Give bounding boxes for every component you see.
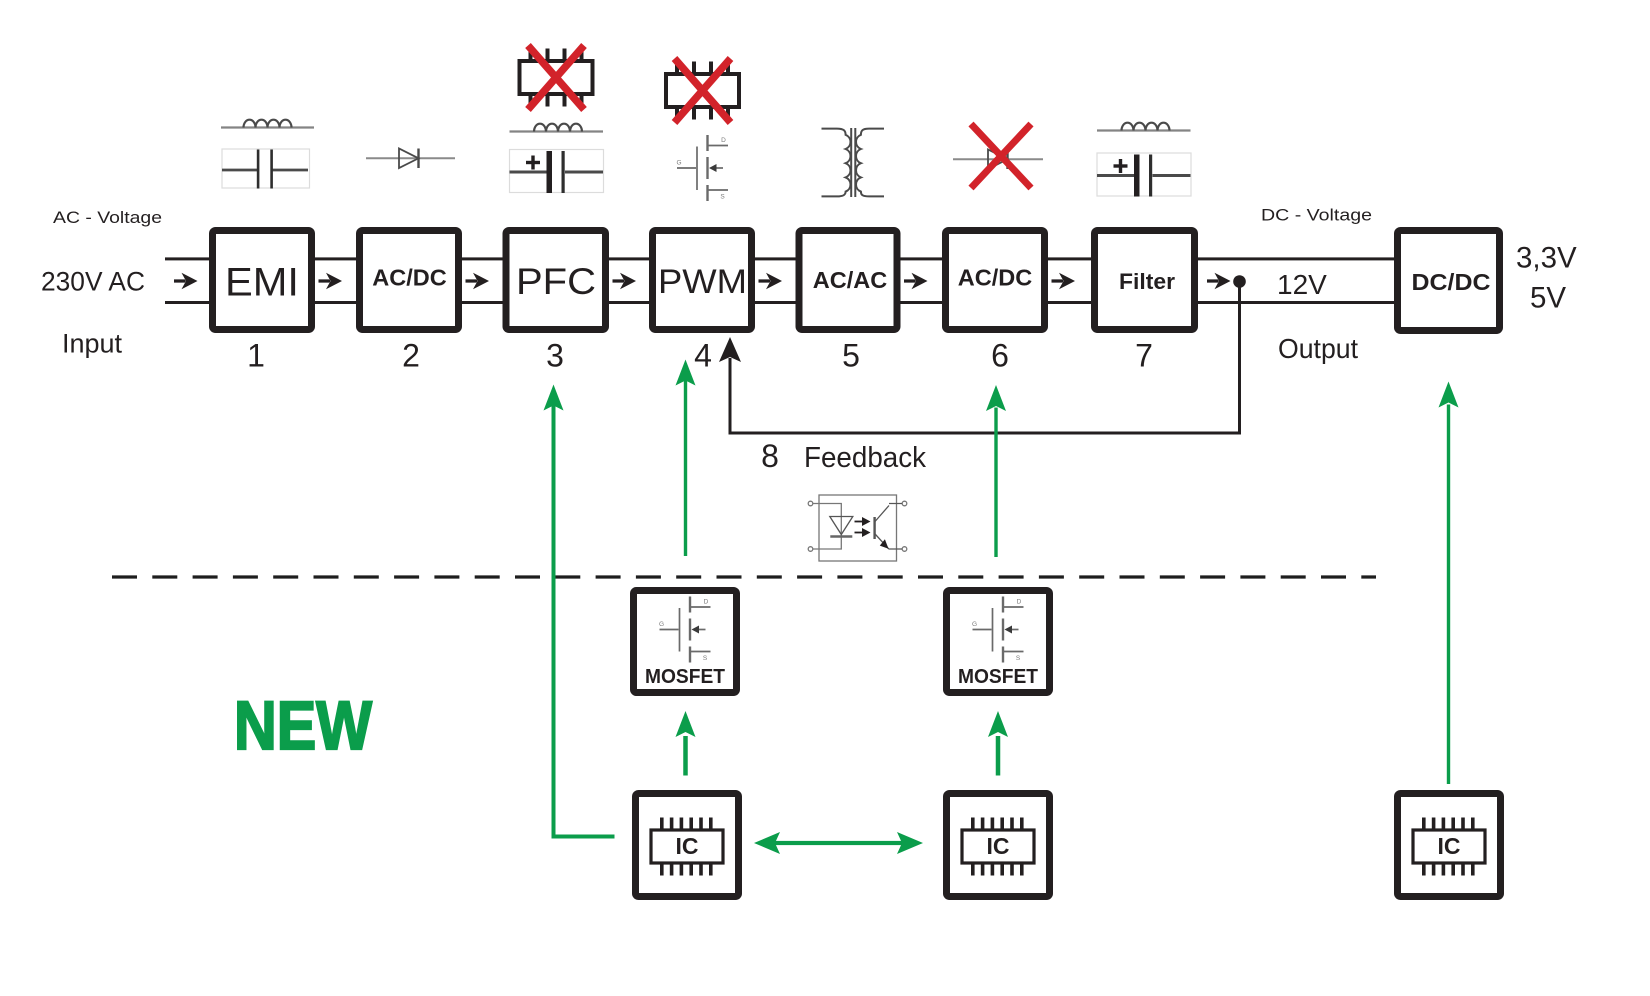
svg-text:MOSFET: MOSFET	[958, 666, 1038, 688]
inductor above EMI	[221, 126, 314, 128]
block 2 AC/DC rectifier	[360, 231, 459, 330]
MOSFET symbol above PWM	[676, 135, 728, 201]
block 5 AC/AC transformer stage	[799, 231, 897, 330]
arrow green into PWM	[684, 381, 687, 557]
arrow feedback into PWM	[719, 337, 741, 362]
svg-text:5V: 5V	[1530, 282, 1566, 315]
wire feedback horizontal run	[729, 432, 1242, 435]
block 7 Filter	[1095, 231, 1195, 330]
wire AC/DC bus top rail	[165, 257, 1396, 260]
wire AC/DC bus bottom rail	[165, 301, 1396, 304]
box MOSFET 2	[947, 591, 1050, 693]
svg-text:DC/DC: DC/DC	[1412, 269, 1491, 295]
svg-text:6: 6	[991, 338, 1009, 374]
arrow PWM to AC/AC	[759, 273, 783, 289]
arrow Filter to output node	[1207, 273, 1231, 289]
svg-text:PWM: PWM	[658, 263, 747, 301]
arrow AC/AC to AC/DC	[904, 273, 928, 289]
inductor above PFC	[510, 130, 604, 132]
arrow green into DC/DC	[1447, 405, 1450, 785]
box MOSFET 1	[634, 591, 737, 693]
svg-text:Output: Output	[1278, 333, 1358, 364]
box IC 1	[636, 794, 739, 897]
svg-text:1: 1	[247, 338, 265, 374]
svg-text:230V AC: 230V AC	[41, 267, 145, 297]
svg-text:4: 4	[694, 338, 712, 374]
diode above AC/DC	[366, 157, 455, 159]
node output junction dot	[1233, 275, 1246, 288]
box IC 2	[947, 794, 1050, 897]
box IC 3	[1398, 794, 1501, 897]
arrow input into EMI	[174, 273, 198, 289]
crossed-out IC above PWM	[666, 59, 739, 123]
block 8 DC/DC converter	[1398, 231, 1500, 331]
arrow green double-headed IC1-IC2	[770, 841, 907, 845]
electrolytic capacitor above PFC	[510, 150, 604, 193]
arrow EMI to AC/DC	[319, 273, 343, 289]
svg-text:MOSFET: MOSFET	[645, 666, 725, 688]
dashed separator line	[112, 575, 1376, 578]
optocoupler U8	[808, 495, 907, 561]
arrow green IC2 to MOSFET2	[996, 736, 1001, 776]
crossed-out diode above AC/DC 6	[953, 158, 1043, 160]
svg-text:NEW: NEW	[234, 687, 373, 764]
svg-text:2: 2	[402, 338, 420, 374]
wire green riser into PFC	[552, 406, 556, 837]
svg-text:EMI: EMI	[225, 261, 299, 305]
arrow PFC to PWM	[613, 273, 637, 289]
svg-text:Input: Input	[62, 329, 123, 359]
block 6 AC/DC secondary rectifier	[946, 231, 1045, 330]
svg-text:PFC: PFC	[516, 261, 596, 302]
block 1 EMI	[213, 231, 312, 330]
capacitor above EMI	[222, 149, 310, 188]
svg-text:AC/DC: AC/DC	[372, 265, 447, 291]
svg-text:3: 3	[546, 338, 564, 374]
wire feedback riser into PWM	[729, 358, 732, 435]
svg-text:8: 8	[761, 438, 779, 474]
svg-text:Filter: Filter	[1119, 269, 1175, 294]
arrow green into AC/DC 6	[994, 408, 997, 558]
arrow green into PFC	[544, 385, 564, 411]
red X over diode	[971, 124, 1031, 188]
electrolytic capacitor above Filter	[1097, 153, 1191, 196]
wire feedback drop from output node	[1238, 284, 1241, 435]
inductor above Filter	[1097, 129, 1191, 131]
svg-text:AC/DC: AC/DC	[958, 265, 1033, 291]
svg-text:7: 7	[1135, 338, 1153, 374]
wire green horizontal from IC1	[552, 835, 615, 839]
svg-text:AC/AC: AC/AC	[813, 267, 888, 293]
arrow AC/DC to PFC	[466, 273, 490, 289]
svg-text:AC - Voltage: AC - Voltage	[53, 208, 162, 227]
block 3 PFC	[506, 231, 606, 330]
arrow green IC1 to MOSFET1	[683, 736, 688, 776]
svg-text:12V: 12V	[1277, 269, 1327, 300]
transformer above AC/AC	[822, 129, 851, 197]
arrow AC/DC to Filter	[1052, 273, 1076, 289]
crossed-out IC above PFC	[520, 46, 593, 110]
svg-text:5: 5	[842, 338, 860, 374]
svg-text:Feedback: Feedback	[804, 442, 926, 474]
block 4 PWM	[653, 231, 752, 330]
svg-text:3,3V: 3,3V	[1516, 242, 1577, 275]
svg-text:DC - Voltage: DC - Voltage	[1261, 206, 1372, 225]
